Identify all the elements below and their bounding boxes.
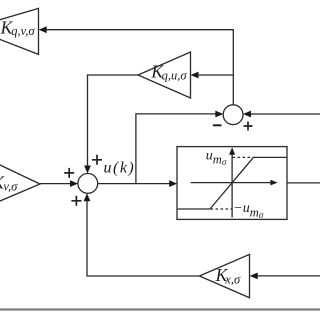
- svg-text:u(k): u(k): [104, 160, 136, 177]
